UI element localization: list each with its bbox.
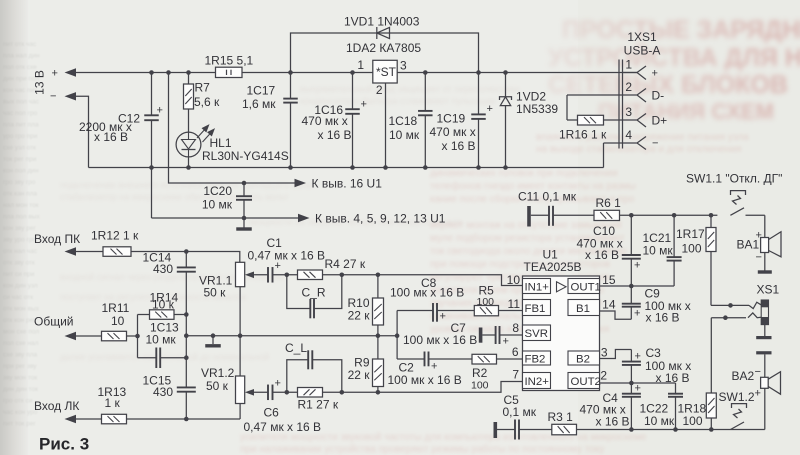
resistor R10 xyxy=(377,275,379,336)
capacitor C5 xyxy=(497,429,552,431)
svg-text:USB-A: USB-A xyxy=(624,44,661,58)
wire R11 node loop xyxy=(137,315,139,358)
svg-text:дин дин ток: дин дин ток xyxy=(3,386,38,393)
svg-text:R3 1: R3 1 xyxy=(548,410,574,424)
capacitor C11 xyxy=(531,214,594,216)
svg-text:зву уро гро: зву уро гро xyxy=(3,237,37,244)
svg-text:10 мк: 10 мк xyxy=(146,333,177,347)
arrow -13V input xyxy=(65,92,77,100)
svg-text:50 к: 50 к xyxy=(204,286,227,300)
svg-text:1: 1 xyxy=(357,58,364,72)
U1 cell OUT2 xyxy=(568,373,601,389)
junction dot VR mid rail xyxy=(238,333,243,338)
junction dot pin2 C3 C4 xyxy=(629,381,634,386)
jack XS1 top contact xyxy=(749,302,761,308)
svg-text:0,47 мк x 16 В: 0,47 мк x 16 В xyxy=(248,249,326,263)
svg-text:3: 3 xyxy=(625,105,632,119)
wire common mid rail xyxy=(186,335,397,337)
svg-text:1XS1: 1XS1 xyxy=(627,30,657,44)
svg-text:1,6 мк: 1,6 мк xyxy=(242,97,276,111)
svg-text:100 мк x 16 В: 100 мк x 16 В xyxy=(390,286,464,300)
svg-text:отк нал час: отк нал час xyxy=(3,248,38,255)
wire VR1.1 wiper to C1 xyxy=(254,274,298,276)
junction dots R4 wire xyxy=(285,273,290,278)
svg-text:10 мк: 10 мк xyxy=(202,198,233,212)
svg-text:х 16 В: х 16 В xyxy=(318,128,352,142)
svg-text:430: 430 xyxy=(153,262,173,276)
svg-text:+: + xyxy=(440,311,446,323)
svg-text:си час отк: си час отк xyxy=(3,294,33,301)
speaker BA1 xyxy=(764,215,766,237)
svg-text:+: + xyxy=(487,103,493,115)
junction dots output2 rail xyxy=(629,427,634,432)
svg-text:−: − xyxy=(756,252,762,264)
USB pin 2 wire xyxy=(567,89,646,103)
arrow +13V input xyxy=(65,68,77,76)
svg-text:OUT1: OUT1 xyxy=(571,281,601,293)
svg-text:1R12 1 к: 1R12 1 к xyxy=(91,229,139,243)
svg-text:C_L: C_L xyxy=(285,341,307,355)
resistor 1R13 xyxy=(102,414,127,424)
svg-text:час пол гро: час пол гро xyxy=(3,110,38,117)
svg-text:динамических головок при подкл: динамических головок при подключении xyxy=(430,168,618,179)
USB pin 1 contact xyxy=(623,66,647,80)
HL1 emission arrows xyxy=(197,125,214,142)
capacitor C_R bypass loop xyxy=(287,275,342,309)
capacitor 1C13 xyxy=(138,357,187,359)
svg-text:+: + xyxy=(634,308,640,320)
wire to pins 4,5,9,12,13 of U1 xyxy=(152,217,304,219)
wire +13V top rail xyxy=(76,72,637,74)
wire common input xyxy=(76,335,138,337)
svg-text:1R11: 1R11 xyxy=(102,301,130,315)
U1 cell B2 xyxy=(568,351,600,365)
svg-text:13 В: 13 В xyxy=(33,70,47,95)
wire R4 to IC pin 10 xyxy=(323,275,523,286)
svg-text:14: 14 xyxy=(602,298,616,312)
wire output2 bottom rail xyxy=(577,429,765,431)
svg-text:XS1: XS1 xyxy=(757,283,780,297)
U1 cell B1 xyxy=(568,300,600,316)
svg-text:2: 2 xyxy=(625,80,632,94)
wire bottom return rail xyxy=(89,167,604,169)
svg-text:100: 100 xyxy=(471,380,489,392)
wire -13V input xyxy=(76,96,89,167)
wire R2 to IC pin 6 xyxy=(497,358,523,360)
ground symbol C7 xyxy=(479,328,483,343)
wire HL1 to rail xyxy=(188,157,190,168)
svg-text:R1 27 к: R1 27 к xyxy=(298,398,339,412)
svg-text:R7: R7 xyxy=(195,81,211,95)
svg-text:−: − xyxy=(755,366,761,378)
svg-text:C_R: C_R xyxy=(302,286,326,300)
svg-text:мон схе пол: мон схе пол xyxy=(3,329,39,336)
ground symbol C5 xyxy=(493,422,497,438)
svg-text:+: + xyxy=(635,351,641,363)
resistor R5 xyxy=(474,306,498,316)
arrow common input xyxy=(65,332,77,340)
wire R1 to IC pin 7 xyxy=(323,382,523,393)
svg-text:подключении внешнего источника: подключении внешнего источника питания т… xyxy=(60,180,315,190)
capacitor C12 xyxy=(151,73,153,219)
arrow to pins 4,5,9,12,13 U1 xyxy=(298,214,310,222)
svg-text:Вход ЛК: Вход ЛК xyxy=(34,399,79,413)
svg-text:+: + xyxy=(503,336,509,348)
wire U1 pin3 jog to C3 xyxy=(600,350,632,359)
svg-text:B2: B2 xyxy=(576,353,590,365)
capacitor C8 xyxy=(397,310,474,312)
svg-text:+: + xyxy=(361,99,367,111)
svg-text:FB2: FB2 xyxy=(525,353,546,365)
U1 cell FB1 xyxy=(523,300,551,316)
svg-text:3: 3 xyxy=(400,59,407,73)
speaker BA2 xyxy=(764,372,766,430)
svg-text:К выв. 4, 5, 9, 12, 13 U1: К выв. 4, 5, 9, 12, 13 U1 xyxy=(315,212,446,226)
svg-text:зву мон ток: зву мон ток xyxy=(3,375,37,382)
svg-text:1DA2 КА7805: 1DA2 КА7805 xyxy=(346,41,421,55)
svg-text:УСТРОЙСТВА ДЛЯ НОВЫХ: УСТРОЙСТВА ДЛЯ НОВЫХ xyxy=(548,42,800,72)
capacitor 1C19 xyxy=(478,73,480,168)
connector 1XS1 body xyxy=(618,60,620,149)
op-amp U1 TEA2025B body xyxy=(523,276,600,391)
svg-text:схе узл отк: схе узл отк xyxy=(3,145,36,152)
svg-text:1C17: 1C17 xyxy=(247,84,276,98)
svg-text:C11 0,1 мк: C11 0,1 мк xyxy=(518,190,577,204)
svg-text:час кон уро: час кон уро xyxy=(3,409,38,416)
resistor 1R11 xyxy=(102,331,127,341)
svg-text:пла пол вых: пла пол вых xyxy=(3,214,40,221)
capacitor C10 xyxy=(630,215,632,286)
resistor 1R17 xyxy=(710,215,712,305)
svg-text:3: 3 xyxy=(601,346,608,360)
svg-text:10 мк: 10 мк xyxy=(643,244,674,258)
svg-text:10 мк: 10 мк xyxy=(644,414,675,428)
svg-text:1C19: 1C19 xyxy=(437,112,466,126)
svg-text:+: + xyxy=(635,383,641,395)
USB pin 4 wire xyxy=(604,137,647,168)
svg-text:SVR: SVR xyxy=(525,328,548,340)
resistor R7 xyxy=(188,73,190,133)
svg-text:+: + xyxy=(52,68,58,80)
wire input LK xyxy=(76,404,240,420)
svg-text:схе зву пла: схе зву пла xyxy=(3,352,38,359)
svg-text:гро отк си: гро отк си xyxy=(3,398,33,405)
svg-text:HL1: HL1 xyxy=(210,136,232,150)
svg-text:7: 7 xyxy=(512,368,519,382)
svg-text:SW1.1 "Откл. ДГ": SW1.1 "Откл. ДГ" xyxy=(686,172,782,186)
svg-text:ток рег при: ток рег при xyxy=(3,156,37,163)
svg-text:Рис. 3: Рис. 3 xyxy=(39,435,89,454)
svg-text:D-: D- xyxy=(652,89,665,103)
svg-text:50 к: 50 к xyxy=(206,379,229,393)
ground after C20 xyxy=(243,218,245,228)
svg-text:100 мк x 16 В: 100 мк x 16 В xyxy=(403,333,477,347)
capacitor C2 xyxy=(397,358,472,360)
svg-text:отк кон рег: отк кон рег xyxy=(3,317,36,324)
svg-text:10 мк: 10 мк xyxy=(389,128,420,142)
svg-text:1VD1 1N4003: 1VD1 1N4003 xyxy=(344,15,420,29)
svg-text:вых пол час: вых пол час xyxy=(3,99,40,106)
U1 cell IN1+ xyxy=(523,279,551,294)
svg-text:+: + xyxy=(431,361,437,373)
svg-text:FB1: FB1 xyxy=(525,303,546,315)
svg-text:+: + xyxy=(756,230,762,242)
LED HL1 xyxy=(176,132,201,157)
svg-text:нал мон ток: нал мон ток xyxy=(3,202,39,209)
wire U1 pin2 to C4 C22 xyxy=(600,382,676,384)
svg-text:x 16 В: x 16 В xyxy=(585,248,619,262)
XS1 break contact bars xyxy=(764,325,766,336)
svg-text:х 16 В: х 16 В xyxy=(656,371,690,385)
resistor 1R16 xyxy=(567,95,646,127)
svg-text:гро зву гро: гро зву гро xyxy=(3,179,36,186)
svg-text:1 к: 1 к xyxy=(105,396,121,410)
capacitor 1C18 xyxy=(424,73,426,168)
svg-text:+: + xyxy=(157,105,163,117)
capacitor 1C14 xyxy=(177,267,196,271)
svg-text:пол отк схе: пол отк схе xyxy=(3,64,37,71)
junction dot R10 mid rail xyxy=(376,333,381,338)
svg-text:6: 6 xyxy=(512,345,519,359)
svg-text:TEA2025B: TEA2025B xyxy=(524,260,582,274)
svg-text:*ST: *ST xyxy=(376,65,397,79)
U1 cell IN2+ xyxy=(523,373,551,389)
resistor R6 xyxy=(594,210,620,220)
svg-text:пла пит пла: пла пит пла xyxy=(3,122,39,129)
capacitor 1C22 xyxy=(675,383,677,430)
U1 cell FB2 xyxy=(523,351,551,365)
svg-text:х 16 В: х 16 В xyxy=(596,415,630,429)
svg-text:VR1.2: VR1.2 xyxy=(201,366,235,380)
svg-text:D+: D+ xyxy=(652,114,668,128)
capacitor C4 xyxy=(630,383,632,430)
wire 1R17 to jack contact xyxy=(711,304,749,306)
svg-text:ПРОСТЫЕ ЗАРЯДНЫЕ: ПРОСТЫЕ ЗАРЯДНЫЕ xyxy=(562,16,800,44)
capacitor 1C20 xyxy=(243,183,245,218)
svg-text:+: + xyxy=(275,378,281,390)
svg-text:100: 100 xyxy=(683,414,703,428)
svg-text:22 к: 22 к xyxy=(348,309,371,323)
switch SW1.1 xyxy=(730,191,764,216)
svg-text:R2: R2 xyxy=(472,366,488,380)
svg-text:х 16 В: х 16 В xyxy=(94,130,128,144)
potentiometer VR1.2 xyxy=(236,376,245,404)
svg-text:470 мк х: 470 мк х xyxy=(430,125,476,139)
wire VR1.1 to mid rail xyxy=(239,287,241,336)
svg-text:11: 11 xyxy=(508,297,521,311)
resistor 1R15 xyxy=(216,72,243,74)
junction dots output1 rail xyxy=(629,213,634,218)
svg-text:RL30N-YG414S: RL30N-YG414S xyxy=(202,149,289,163)
svg-text:R4 27 к: R4 27 к xyxy=(325,257,366,271)
zener diode 1VD2 xyxy=(505,73,507,168)
svg-text:R6 1: R6 1 xyxy=(596,196,622,210)
svg-text:при налаживании устройства про: при налаживании устройства проверяют реж… xyxy=(240,443,604,455)
wire R5 to IC pin 11 xyxy=(499,310,523,312)
resistor R1 xyxy=(298,388,323,398)
svg-text:IN2+: IN2+ xyxy=(525,376,550,388)
svg-text:C6: C6 xyxy=(264,406,280,420)
wire 1R18 to jack contact xyxy=(711,317,746,319)
svg-text:при помощи подстроечных резист: при помощи подстроечных резисторов xyxy=(430,259,610,270)
wire 1DA2 pin 2 to rail xyxy=(385,83,387,168)
svg-text:22 к: 22 к xyxy=(348,368,371,382)
svg-text:10 к: 10 к xyxy=(152,298,175,312)
svg-text:OUT2: OUT2 xyxy=(571,376,601,388)
svg-text:х 16 В: х 16 В xyxy=(646,311,680,325)
potentiometer VR1.1 xyxy=(236,262,245,286)
U1 cell SVR xyxy=(523,325,551,341)
svg-text:−: − xyxy=(50,91,56,103)
svg-text:уро гро при: уро гро при xyxy=(3,133,38,140)
svg-text:BA2: BA2 xyxy=(732,369,755,383)
wire output1 rail xyxy=(620,214,718,216)
svg-text:пит си при: пит си при xyxy=(3,271,35,278)
capacitor C_L bypass loop xyxy=(287,360,342,393)
svg-text:1C20: 1C20 xyxy=(203,184,232,198)
capacitor C6 xyxy=(268,378,281,401)
svg-text:1R15 5,1: 1R15 5,1 xyxy=(205,54,254,68)
svg-text:4: 4 xyxy=(625,128,632,142)
wire ground bus vertical xyxy=(396,311,398,360)
capacitor C1 xyxy=(268,260,281,283)
wire VR1.2 to mid rail xyxy=(239,336,241,376)
svg-text:100: 100 xyxy=(682,242,702,256)
ground symbol BA1 xyxy=(764,253,766,271)
svg-text:430: 430 xyxy=(153,385,173,399)
svg-text:стабилизатор на микросхеме обе: стабилизатор на микросхеме обеспечивает … xyxy=(60,192,288,202)
svg-text:2: 2 xyxy=(376,83,383,97)
svg-text:далее усиливается микросхемой: далее усиливается микросхемой до номинал… xyxy=(60,352,269,362)
svg-text:1R16 1 к: 1R16 1 к xyxy=(559,128,607,142)
svg-text:пит ток рег: пит ток рег xyxy=(3,421,36,428)
svg-text:+: + xyxy=(634,260,640,272)
connector XS1 jack body xyxy=(761,300,768,325)
svg-text:пол схе нал: пол схе нал xyxy=(3,340,39,347)
wire U1 pin15 to caps xyxy=(600,285,675,287)
svg-text:SW1.2: SW1.2 xyxy=(719,390,755,404)
svg-text:15: 15 xyxy=(602,273,616,287)
svg-text:0,47 мк x 16 В: 0,47 мк x 16 В xyxy=(244,420,322,434)
svg-text:выпрямительный диод защищает о: выпрямительный диод защищает от переполю… xyxy=(300,84,519,94)
capacitor C9 xyxy=(630,286,632,319)
svg-text:1: 1 xyxy=(625,58,632,72)
wire VR1.2 wiper to C6 xyxy=(254,391,298,393)
svg-text:отк мон вых: отк мон вых xyxy=(3,306,40,313)
capacitor 1C16 xyxy=(352,73,354,168)
svg-text:Общий: Общий xyxy=(34,315,74,329)
svg-text:IN1+: IN1+ xyxy=(525,281,550,293)
resistor R3 xyxy=(552,424,577,435)
svg-text:кон пол дин: кон пол дин xyxy=(3,168,39,175)
resistor R2 xyxy=(472,354,497,364)
svg-text:100 мк x 16 В: 100 мк x 16 В xyxy=(388,373,462,387)
junction dot ground bus mid rail xyxy=(395,333,400,338)
resistor 1R12 xyxy=(103,247,131,256)
capacitor 1C15 xyxy=(177,387,196,391)
ground symbol C11 xyxy=(527,206,531,227)
U1 amp triangle xyxy=(557,282,567,292)
wire left bus vertical xyxy=(185,252,187,420)
junction dot jack top xyxy=(728,303,733,308)
U1 cell OUT1 xyxy=(568,279,601,294)
svg-text:х 16 В: х 16 В xyxy=(442,139,476,153)
svg-text:отк кан пла: отк кан пла xyxy=(3,191,37,198)
junction dots R1 wire xyxy=(285,390,290,395)
svg-text:10: 10 xyxy=(507,273,521,287)
arrow input PK xyxy=(65,247,77,255)
capacitor 1C17 xyxy=(290,73,292,168)
ground symbol mid rail xyxy=(212,336,214,344)
svg-text:кон зву рег: кон зву рег xyxy=(3,225,37,232)
svg-text:+: + xyxy=(652,68,658,80)
svg-text:2: 2 xyxy=(600,369,607,383)
svg-text:К выв. 16 U1: К выв. 16 U1 xyxy=(312,176,383,190)
svg-text:1R17: 1R17 xyxy=(676,227,705,241)
resistor R9 xyxy=(377,336,379,393)
svg-text:отк зву отк: отк зву отк xyxy=(3,260,35,267)
svg-text:B1: B1 xyxy=(576,303,590,315)
arrow to pin 16 U1 xyxy=(295,179,307,187)
svg-text:+: + xyxy=(275,260,281,272)
junction dots top rail xyxy=(149,70,154,75)
svg-text:8: 8 xyxy=(512,321,519,335)
resistor R4 xyxy=(298,270,323,280)
jack XS1 bottom contact xyxy=(748,313,761,318)
VR1.1 wiper arrow xyxy=(245,272,254,279)
capacitor C7 xyxy=(482,334,522,336)
svg-text:кон дин узл: кон дин узл xyxy=(3,283,38,290)
svg-text:+: + xyxy=(755,388,761,400)
svg-text:при рег зву: при рег зву xyxy=(3,363,37,370)
diode 1VD1 xyxy=(291,33,479,73)
svg-text:470 мк х: 470 мк х xyxy=(302,114,348,128)
switch SW1.2 xyxy=(731,404,747,430)
junction dot jack bottom xyxy=(723,315,728,320)
arrow input LK xyxy=(65,415,77,423)
wire U1 pin14 jog to C9 xyxy=(600,311,632,319)
svg-text:C3: C3 xyxy=(646,346,662,360)
VR1.2 wiper arrow xyxy=(245,389,254,396)
junction dots bottom rail xyxy=(149,165,154,170)
wire to pin 16 of U1 xyxy=(169,73,300,184)
svg-text:пла нал дин: пла нал дин xyxy=(3,53,40,60)
svg-text:10: 10 xyxy=(111,314,125,328)
junction dot R11 node xyxy=(135,334,140,339)
voltage regulator 1DA2 xyxy=(373,60,397,83)
svg-text:пит отк час: пит отк час xyxy=(3,41,37,48)
capacitor C3 xyxy=(630,350,632,384)
svg-text:Вход ПК: Вход ПК xyxy=(34,232,80,246)
capacitor 1C21 xyxy=(673,215,675,286)
svg-text:5,6 к: 5,6 к xyxy=(194,95,220,109)
svg-text:100: 100 xyxy=(477,296,495,308)
resistor 1R14 xyxy=(138,314,187,316)
resistor 1R18 xyxy=(710,318,712,430)
junction dot pin15 C10 xyxy=(629,284,634,289)
junction dots C20 xyxy=(242,181,247,186)
svg-text:−: − xyxy=(652,138,658,150)
junction dots left bus xyxy=(184,249,189,254)
svg-text:0,1 мк: 0,1 мк xyxy=(503,405,537,419)
svg-text:1N5339: 1N5339 xyxy=(516,102,558,116)
svg-text:1C18: 1C18 xyxy=(389,114,418,128)
wire input PK xyxy=(76,252,240,263)
